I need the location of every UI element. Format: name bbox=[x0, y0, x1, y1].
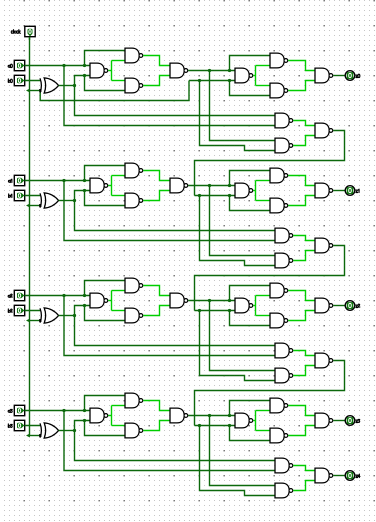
wire xor out to NAND1 bbox=[75, 421, 91, 431]
wire G out bbox=[288, 81, 315, 91]
wire carry row 1 to row 2 bbox=[195, 246, 345, 311]
wire to output z1 bbox=[333, 190, 345, 192]
wire carry to NAND F bbox=[230, 426, 271, 441]
XOR gate X3 bbox=[40, 423, 59, 438]
input pin clock bbox=[25, 26, 35, 36]
clock tap arrow bbox=[26, 319, 30, 323]
wire clock tap row 3 bbox=[30, 435, 41, 437]
junction carry x229 bbox=[228, 79, 231, 82]
NAND gate U3J bbox=[275, 458, 293, 473]
input pin b1 bbox=[14, 190, 24, 200]
output pin z4 bbox=[345, 471, 355, 481]
junction a0 x64 bbox=[62, 64, 65, 67]
input pin b2 bbox=[14, 305, 24, 315]
wire to U C bbox=[112, 425, 126, 427]
NAND gate U2B bbox=[125, 278, 143, 293]
NAND gate U2H bbox=[315, 298, 333, 313]
junction sum1 x209 bbox=[208, 69, 211, 72]
label z3 bbox=[356, 420, 360, 423]
label a0 bbox=[8, 64, 12, 67]
XOR X2 lower input port bbox=[39, 319, 41, 322]
NAND gate U0F bbox=[270, 53, 288, 68]
wire xor out to NAND1 bbox=[75, 191, 91, 201]
clock tap arrow bbox=[26, 204, 30, 208]
NAND gate U1G bbox=[270, 198, 288, 213]
wire carry out to z4 bbox=[333, 475, 345, 477]
label b2 bbox=[8, 309, 12, 313]
NAND gate U1K bbox=[275, 253, 293, 268]
NAND gate U2D bbox=[170, 293, 188, 308]
junction sum1 x229 bbox=[228, 69, 231, 72]
wire b1 line bbox=[25, 195, 41, 197]
junction sum1 x209 bbox=[208, 414, 211, 417]
label z0 bbox=[356, 74, 360, 77]
output pin z3 bbox=[345, 416, 355, 426]
junction xor out bbox=[73, 314, 76, 317]
wire to output z0 bbox=[333, 75, 345, 77]
wire XOR X1 output bbox=[59, 200, 75, 202]
wire xor out to NAND3 bbox=[85, 191, 126, 206]
NAND gate U2G bbox=[270, 313, 288, 328]
junction a2 x84 bbox=[83, 294, 86, 297]
XOR X0 lower input port bbox=[39, 89, 41, 92]
wire U B out bbox=[143, 56, 170, 66]
wire sum1 to carry cluster bbox=[210, 186, 276, 256]
junction sum1 x209 bbox=[208, 299, 211, 302]
wire F out bbox=[288, 61, 315, 71]
clock tap arrow bbox=[26, 89, 30, 93]
wire sum1 line bbox=[188, 300, 235, 302]
wire U A out split bbox=[111, 291, 113, 311]
wire xor out to carry cluster bbox=[75, 316, 276, 346]
NAND gate U0B bbox=[125, 48, 143, 63]
wire a0 line bbox=[25, 65, 90, 67]
wire b0 line bbox=[25, 80, 41, 82]
NAND gate U1L bbox=[315, 238, 333, 253]
wire to U C bbox=[112, 80, 126, 82]
wire G out bbox=[288, 426, 315, 436]
wire J out bbox=[293, 351, 315, 356]
wire U C out bbox=[143, 421, 170, 431]
clock rail wire bbox=[29, 37, 31, 436]
wire xor out to NAND3 bbox=[85, 421, 126, 436]
wire carry to NAND F bbox=[230, 311, 271, 326]
NAND gate U0A bbox=[90, 63, 108, 78]
input pin b0 bbox=[14, 75, 24, 85]
wire U A out bbox=[108, 300, 111, 302]
junction carry x229 bbox=[228, 309, 231, 312]
wire U C out bbox=[143, 306, 170, 316]
wire carry to cluster bottom bbox=[200, 311, 276, 381]
wire to U B bbox=[112, 175, 126, 177]
XOR X3 lower input port bbox=[39, 434, 41, 437]
wire to U B bbox=[112, 60, 126, 62]
wire carry line row 2 bbox=[195, 310, 236, 312]
wire U A out split bbox=[111, 406, 113, 426]
wire sum1 line bbox=[188, 415, 235, 417]
NAND gate U3B bbox=[125, 393, 143, 408]
junction carry x229 bbox=[228, 424, 231, 427]
NAND gate U0G bbox=[270, 83, 288, 98]
junction carry x199 bbox=[198, 309, 201, 312]
NAND gate U0H bbox=[315, 68, 333, 83]
label clock bbox=[11, 30, 20, 34]
wire U A out split bbox=[111, 176, 113, 196]
wire sum1 to NAND E bbox=[230, 171, 271, 186]
input pin a2 bbox=[14, 290, 24, 300]
wire E to G top bbox=[256, 85, 271, 87]
wire xor out to NAND1 bbox=[75, 306, 91, 316]
wire K out bbox=[293, 136, 315, 146]
wire a3 line bbox=[25, 410, 90, 412]
NAND gate U0K bbox=[275, 138, 293, 153]
NAND gate U2J bbox=[275, 343, 293, 358]
NAND gate U3F bbox=[270, 398, 288, 413]
NAND gate U1F bbox=[270, 168, 288, 183]
junction a0 x84 bbox=[83, 64, 86, 67]
junction xor out bbox=[73, 429, 76, 432]
NAND gate U2L bbox=[315, 353, 333, 368]
wire E out bbox=[253, 305, 255, 307]
NAND gate U3A bbox=[90, 408, 108, 423]
NAND gate U3G bbox=[270, 428, 288, 443]
junction nand1 in bbox=[83, 189, 86, 192]
NAND gate U1A bbox=[90, 178, 108, 193]
wire XOR X0 output bbox=[59, 85, 75, 87]
wire sum1 to NAND E bbox=[230, 401, 271, 416]
wire U A out split bbox=[111, 61, 113, 81]
wire xor out to NAND1 bbox=[75, 76, 91, 86]
wire carry line row 3 bbox=[195, 425, 236, 427]
wire xor out to carry cluster bbox=[75, 201, 276, 231]
wire carry row 0 to row 1 bbox=[195, 131, 345, 196]
wire E to F top bbox=[256, 410, 271, 412]
wire E out split bbox=[255, 411, 257, 431]
wire a1 line bbox=[25, 180, 90, 182]
junction nand1 in bbox=[83, 74, 86, 77]
wire to U B bbox=[112, 290, 126, 292]
wire G out bbox=[288, 311, 315, 321]
wire U C out bbox=[143, 191, 170, 201]
wire to output z2 bbox=[333, 305, 345, 307]
wire sum1 to carry cluster bbox=[210, 71, 276, 141]
label b0 bbox=[8, 79, 12, 83]
wire a2 to carry cluster bbox=[64, 296, 275, 356]
wire E to F top bbox=[256, 180, 271, 182]
label b3 bbox=[8, 424, 12, 428]
NAND gate U1C bbox=[125, 193, 143, 208]
wire a2 line bbox=[25, 295, 90, 297]
wire F out bbox=[288, 176, 315, 186]
input pin b3 bbox=[14, 420, 24, 430]
NAND gate U3E bbox=[235, 413, 253, 428]
wire E out bbox=[253, 420, 255, 422]
NAND gate U1D bbox=[170, 178, 188, 193]
NAND gate U3D bbox=[170, 408, 188, 423]
XOR X1 lower input port bbox=[39, 204, 41, 207]
label a2 bbox=[8, 294, 12, 297]
wire carry to cluster bottom bbox=[200, 196, 276, 266]
wire U B out bbox=[143, 171, 170, 181]
NAND gate U3K bbox=[275, 483, 293, 498]
wire xor out to carry cluster bbox=[75, 86, 276, 116]
wire E out bbox=[253, 75, 255, 77]
wire a3 to carry cluster bbox=[64, 411, 275, 471]
wire carry to cluster bottom bbox=[200, 426, 276, 496]
wire E to G top bbox=[256, 430, 271, 432]
junction nand1 in bbox=[83, 419, 86, 422]
wire E to G top bbox=[256, 200, 271, 202]
wire to U C bbox=[112, 310, 126, 312]
wire U A out bbox=[108, 70, 111, 72]
junction a1 x84 bbox=[83, 179, 86, 182]
wire E out split bbox=[255, 296, 257, 316]
junction a3 x64 bbox=[62, 409, 65, 412]
wire J out bbox=[293, 236, 315, 241]
wire XOR X3 output bbox=[59, 430, 75, 432]
wire K out bbox=[293, 366, 315, 376]
wire sum1 to NAND E bbox=[230, 56, 271, 71]
wire xor out to NAND3 bbox=[85, 306, 126, 321]
wire G out bbox=[288, 196, 315, 206]
wire to U C bbox=[112, 195, 126, 197]
wire F out bbox=[288, 406, 315, 416]
NAND gate U0C bbox=[125, 78, 143, 93]
wire a2 to NAND2 bbox=[85, 281, 126, 296]
junction carry x229 bbox=[228, 194, 231, 197]
NAND gate U3L bbox=[315, 468, 333, 483]
wire a0 to carry cluster bbox=[64, 66, 275, 126]
clock input pin wire stub bbox=[29, 35, 31, 40]
wire carry row 2 to row 3 bbox=[195, 361, 345, 426]
wire U C out bbox=[143, 76, 170, 86]
wire J out bbox=[293, 121, 315, 126]
label z1 bbox=[356, 189, 359, 192]
wire a0 to NAND2 bbox=[85, 51, 126, 66]
wire to output z3 bbox=[333, 420, 345, 422]
wire U B out bbox=[143, 401, 170, 411]
NAND gate U2K bbox=[275, 368, 293, 383]
wire a1 to NAND2 bbox=[85, 166, 126, 181]
wire a3 to NAND2 bbox=[85, 396, 126, 411]
wire sum1 to NAND E bbox=[230, 286, 271, 301]
NAND gate U0J bbox=[275, 113, 293, 128]
wire b3 line bbox=[25, 425, 41, 427]
junction xor out bbox=[73, 84, 76, 87]
NAND gate U2F bbox=[270, 283, 288, 298]
wire K out bbox=[293, 481, 315, 491]
wire U A out bbox=[108, 185, 111, 187]
wire E to F top bbox=[256, 65, 271, 67]
NAND gate U2A bbox=[90, 293, 108, 308]
XOR gate X0 bbox=[40, 78, 59, 93]
NAND gate U1E bbox=[235, 183, 253, 198]
junction sum1 x229 bbox=[228, 184, 231, 187]
wire carry to NAND F bbox=[230, 81, 271, 96]
wire carry line row 0 bbox=[189, 80, 235, 82]
wire carry to NAND F bbox=[230, 196, 271, 211]
wire clock tap row 0 bbox=[30, 90, 41, 92]
wire xor out to NAND3 bbox=[85, 76, 126, 91]
junction a1 x64 bbox=[62, 179, 65, 182]
junction carry x199 bbox=[198, 424, 201, 427]
NAND gate U1J bbox=[275, 228, 293, 243]
wire K out bbox=[293, 251, 315, 261]
NAND gate U3H bbox=[315, 413, 333, 428]
wire sum1 line bbox=[188, 70, 235, 72]
NAND gate U0L bbox=[315, 123, 333, 138]
input pin a0 bbox=[14, 60, 24, 70]
label a1 bbox=[8, 179, 11, 182]
wire sum1 line bbox=[188, 185, 235, 187]
label a3 bbox=[8, 410, 12, 413]
junction sum1 x209 bbox=[208, 184, 211, 187]
wire sum1 to carry cluster bbox=[210, 301, 276, 371]
wire carry to cluster bottom bbox=[200, 81, 276, 151]
junction carry x199 bbox=[198, 194, 201, 197]
input pin a3 bbox=[14, 405, 24, 415]
wire E to G top bbox=[256, 315, 271, 317]
wire to U B bbox=[112, 405, 126, 407]
wire carry line row 1 bbox=[195, 195, 236, 197]
wire E to F top bbox=[256, 295, 271, 297]
clock tap arrow bbox=[26, 434, 30, 438]
NAND gate U1H bbox=[315, 183, 333, 198]
NAND gate U2E bbox=[235, 298, 253, 313]
wire E out split bbox=[255, 181, 257, 201]
wire carry-in loop row 0 bbox=[40, 81, 189, 101]
output pin z2 bbox=[345, 301, 355, 311]
wire E out split bbox=[255, 66, 257, 86]
wire J out bbox=[293, 466, 315, 471]
label z2 bbox=[356, 304, 360, 307]
junction a3 x84 bbox=[83, 409, 86, 412]
XOR gate X2 bbox=[40, 308, 59, 323]
wire F out bbox=[288, 291, 315, 301]
output pin z1 bbox=[345, 186, 355, 196]
wire U A out bbox=[108, 415, 111, 417]
input pin a1 bbox=[14, 175, 24, 185]
junction sum1 x229 bbox=[228, 299, 231, 302]
wire a1 to carry cluster bbox=[64, 181, 275, 241]
junction nand1 in bbox=[83, 304, 86, 307]
junction xor out bbox=[73, 199, 76, 202]
wire clock tap row 2 bbox=[30, 320, 41, 322]
junction sum1 x229 bbox=[228, 414, 231, 417]
junction carry x199 bbox=[198, 79, 201, 82]
XOR gate X1 bbox=[40, 193, 59, 208]
wire sum1 to carry cluster bbox=[210, 416, 276, 486]
NAND gate U2C bbox=[125, 308, 143, 323]
label b1 bbox=[9, 194, 12, 198]
NAND gate U3C bbox=[125, 423, 143, 438]
wire b2 line bbox=[25, 310, 41, 312]
junction a2 x64 bbox=[62, 294, 65, 297]
NAND gate U1B bbox=[125, 163, 143, 178]
wire E out bbox=[253, 190, 255, 192]
NAND gate U0E bbox=[235, 68, 253, 83]
wire XOR X2 output bbox=[59, 315, 75, 317]
label z4 bbox=[356, 474, 360, 477]
wire U B out bbox=[143, 286, 170, 296]
output pin z0 bbox=[345, 71, 355, 81]
NAND gate U0D bbox=[170, 63, 188, 78]
wire xor out to carry cluster bbox=[75, 431, 276, 461]
wire clock tap row 1 bbox=[30, 205, 41, 207]
